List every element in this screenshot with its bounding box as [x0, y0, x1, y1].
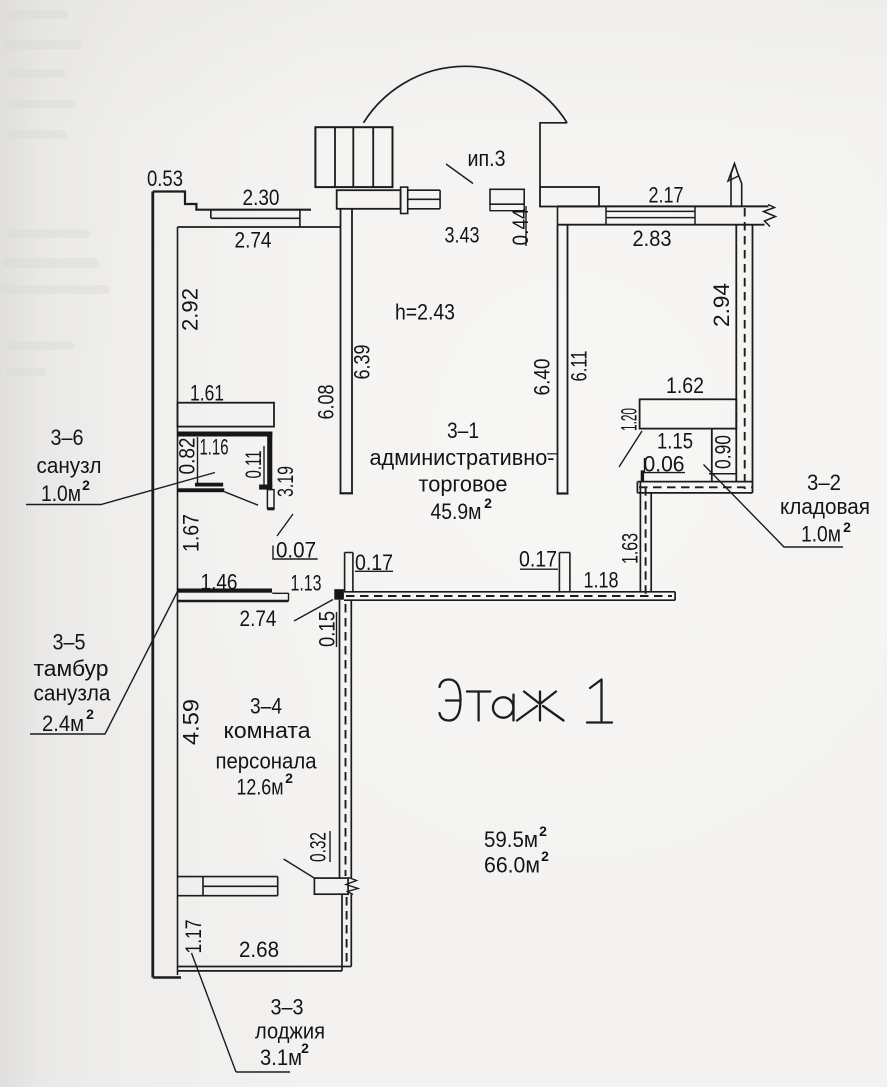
svg-text:2.74: 2.74: [235, 228, 272, 253]
svg-text:6.08: 6.08: [314, 385, 339, 420]
svg-text:1.62: 1.62: [666, 373, 704, 398]
svg-text:h=2.43: h=2.43: [395, 300, 455, 325]
svg-text:2.68: 2.68: [239, 937, 279, 962]
svg-text:0.06: 0.06: [644, 452, 685, 477]
svg-text:0.17: 0.17: [355, 550, 393, 575]
svg-text:2: 2: [285, 770, 293, 786]
svg-text:1.0м: 1.0м: [41, 481, 81, 506]
svg-text:0.11: 0.11: [241, 451, 266, 479]
svg-text:3–6: 3–6: [51, 425, 84, 450]
svg-text:4.59: 4.59: [179, 699, 204, 745]
svg-text:ип.3: ип.3: [468, 146, 506, 171]
svg-text:1.15: 1.15: [657, 429, 693, 454]
svg-text:2.4м: 2.4м: [42, 711, 84, 736]
svg-text:2: 2: [82, 477, 90, 493]
svg-text:3–5: 3–5: [53, 630, 86, 655]
svg-text:1.16: 1.16: [200, 435, 229, 460]
svg-text:торговое: торговое: [419, 472, 508, 497]
svg-text:3–3: 3–3: [271, 995, 304, 1020]
svg-text:3.1м: 3.1м: [260, 1045, 302, 1070]
svg-text:2: 2: [541, 848, 549, 864]
svg-text:3–4: 3–4: [250, 694, 282, 719]
svg-text:1.0м: 1.0м: [801, 522, 841, 547]
svg-text:административно-: административно-: [370, 445, 555, 470]
svg-text:кладовая: кладовая: [780, 494, 870, 519]
svg-text:0.90: 0.90: [711, 435, 736, 469]
svg-text:санузл: санузл: [37, 453, 102, 478]
svg-text:1.63: 1.63: [618, 533, 643, 564]
svg-text:0.82: 0.82: [175, 438, 200, 475]
svg-text:1.61: 1.61: [190, 381, 224, 406]
svg-text:лоджия: лоджия: [255, 1019, 325, 1044]
svg-text:66.0м: 66.0м: [484, 853, 540, 878]
svg-text:6.39: 6.39: [350, 345, 375, 380]
svg-text:2.17: 2.17: [649, 183, 684, 208]
svg-text:0.15: 0.15: [315, 611, 340, 647]
svg-text:2.94: 2.94: [709, 283, 734, 327]
svg-text:59.5м: 59.5м: [484, 827, 538, 852]
svg-text:тамбур: тамбур: [34, 656, 109, 681]
svg-text:12.6м: 12.6м: [237, 775, 284, 800]
svg-text:1.18: 1.18: [584, 568, 619, 593]
svg-text:6.40: 6.40: [530, 359, 555, 396]
svg-text:2: 2: [484, 495, 492, 511]
svg-text:0.44: 0.44: [508, 209, 533, 246]
svg-text:персонала: персонала: [216, 749, 318, 774]
svg-text:0.53: 0.53: [147, 166, 183, 191]
svg-text:45.9м: 45.9м: [431, 499, 482, 524]
svg-text:санузла: санузла: [34, 681, 112, 706]
svg-text:комната: комната: [224, 718, 312, 743]
svg-text:3.43: 3.43: [445, 223, 480, 248]
svg-text:2: 2: [301, 1040, 309, 1056]
svg-text:3–2: 3–2: [807, 470, 841, 495]
svg-text:2: 2: [86, 706, 94, 722]
svg-text:2.30: 2.30: [243, 185, 280, 210]
svg-text:1.20: 1.20: [617, 408, 642, 431]
svg-text:2: 2: [843, 519, 851, 535]
svg-text:1.17: 1.17: [181, 920, 206, 954]
svg-text:1.67: 1.67: [179, 514, 204, 552]
svg-text:1.13: 1.13: [291, 571, 322, 596]
svg-text:0.07: 0.07: [276, 538, 316, 563]
svg-text:3–1: 3–1: [447, 418, 479, 443]
svg-text:2: 2: [539, 823, 547, 839]
svg-text:2.83: 2.83: [633, 226, 672, 251]
svg-text:0.17: 0.17: [519, 547, 557, 572]
svg-text:6.11: 6.11: [567, 351, 592, 382]
svg-text:2.74: 2.74: [240, 606, 277, 631]
svg-text:3.19: 3.19: [273, 466, 298, 497]
svg-text:0.32: 0.32: [306, 832, 331, 862]
svg-text:1.46: 1.46: [201, 570, 238, 595]
svg-text:2.92: 2.92: [178, 288, 203, 331]
